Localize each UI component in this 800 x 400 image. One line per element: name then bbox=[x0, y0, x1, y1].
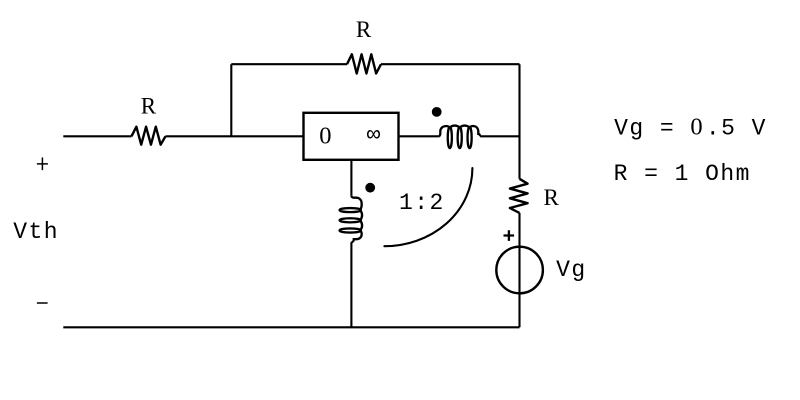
svg-text:0: 0 bbox=[319, 122, 331, 149]
svg-text:Vg = 0.5 V: Vg = 0.5 V bbox=[614, 114, 767, 142]
svg-text:Vth: Vth bbox=[13, 219, 59, 245]
svg-text:R = 1 Ohm: R = 1 Ohm bbox=[614, 161, 751, 187]
svg-text:1:2: 1:2 bbox=[399, 190, 445, 216]
svg-text:Vg: Vg bbox=[556, 257, 587, 283]
svg-text:R: R bbox=[356, 17, 372, 42]
svg-text:∞: ∞ bbox=[367, 122, 381, 148]
svg-text:R: R bbox=[544, 185, 560, 210]
svg-text:R: R bbox=[141, 94, 157, 119]
